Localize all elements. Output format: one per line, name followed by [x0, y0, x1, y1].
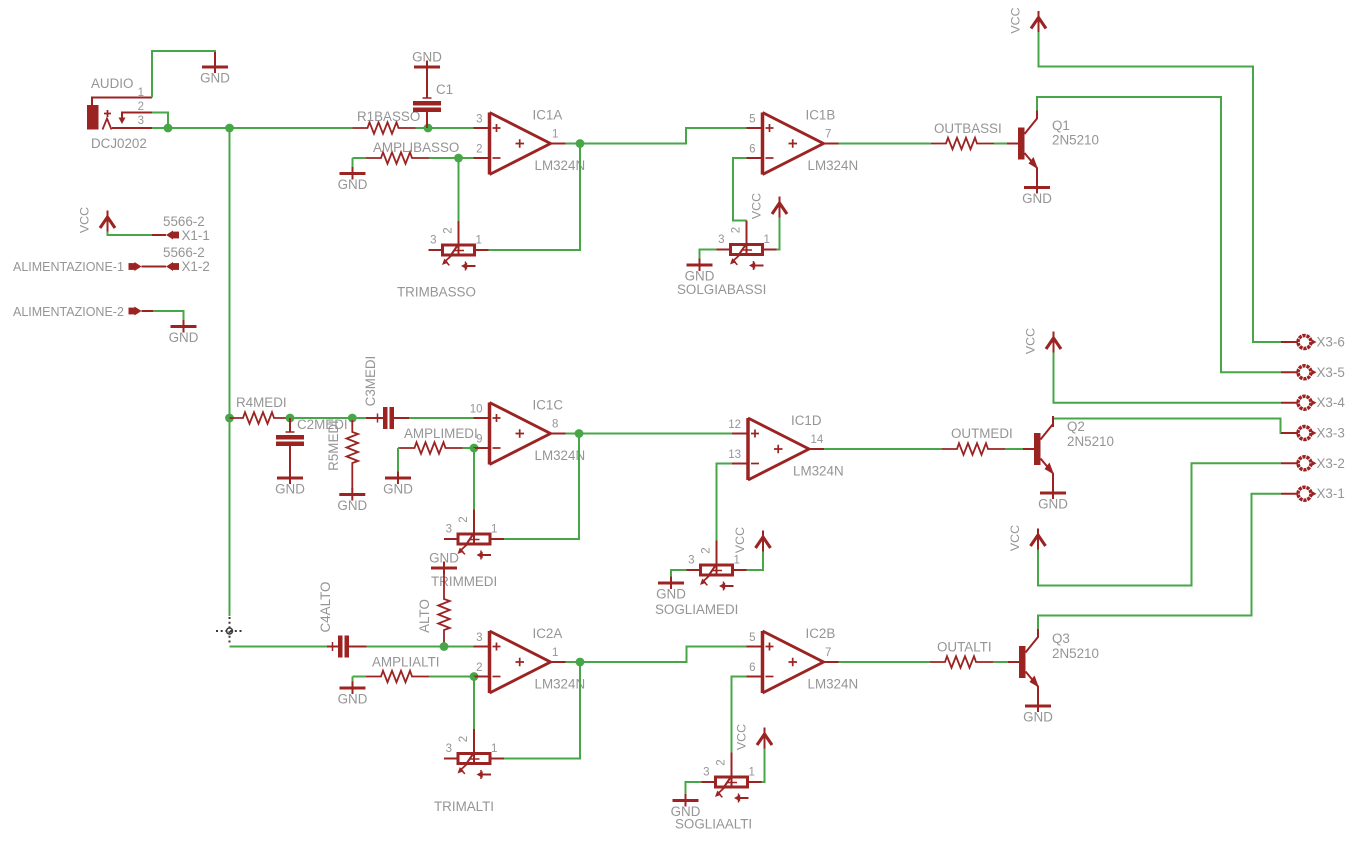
svg-text:Q2: Q2: [1067, 419, 1085, 434]
wire IC1A output: [566, 128, 748, 144]
ground Q1: [1022, 181, 1052, 206]
svg-text:C3MEDI: C3MEDI: [363, 356, 378, 407]
ground ALIMENTAZIONE-2: [169, 320, 199, 345]
svg-text:VCC: VCC: [1008, 525, 1022, 551]
wire IC1D output to OUTMEDI: [824, 448, 942, 450]
trimmer TRIMMEDI: [444, 531, 504, 560]
node marker dotted cross at bus bottom: [216, 617, 243, 645]
wire AMPLIMEDI GND drop: [398, 447, 400, 449]
svg-text:1: 1: [491, 524, 497, 536]
op-amp IC1D: [732, 418, 824, 480]
labels IC1C pins: [470, 398, 585, 464]
vcc symbol left: [78, 207, 116, 233]
svg-text:R4MEDI: R4MEDI: [236, 395, 287, 410]
wire TRIMMEDI wiper: [473, 448, 475, 510]
wire Q1 emitter: [1036, 182, 1038, 184]
svg-text:GND: GND: [169, 330, 199, 345]
svg-text:VCC: VCC: [1009, 7, 1023, 33]
op-amp IC1C: [474, 403, 566, 465]
pad X3-2: [1281, 456, 1345, 471]
connector pad ALIMENTAZIONE-1: [129, 262, 142, 271]
resistor OUTMEDI: [942, 443, 1005, 455]
wire SOGLIAALTI pin1 to VCC: [762, 749, 765, 783]
vcc SOGLIAMEDI: [733, 527, 771, 553]
op-amp IC2B: [747, 631, 839, 693]
ground near AUDIO: [200, 61, 230, 86]
resistor R5MEDI: [347, 420, 359, 490]
svg-text:GND: GND: [200, 71, 230, 86]
svg-text:X3-3: X3-3: [1317, 426, 1345, 441]
svg-text:3: 3: [688, 555, 694, 567]
wire VCC to X3-6: [1039, 32, 1282, 342]
labels TRIMMEDI pins: [446, 516, 498, 535]
trimmer SOGLIAALTI: [702, 774, 762, 803]
svg-text:VCC: VCC: [735, 724, 749, 750]
svg-text:1: 1: [734, 555, 740, 567]
wire Q1 collector to X3-5: [1037, 97, 1281, 372]
svg-text:GND: GND: [383, 482, 413, 497]
svg-text:3: 3: [446, 524, 452, 536]
svg-text:C4ALTO: C4ALTO: [318, 582, 333, 633]
svg-text:GND: GND: [338, 177, 368, 192]
svg-text:LM324N: LM324N: [793, 464, 844, 479]
labels IC2B pins: [749, 626, 858, 692]
svg-text:8: 8: [552, 419, 558, 431]
svg-text:GND: GND: [412, 50, 442, 65]
wire R1BASSO to IC1A pin3: [416, 127, 474, 129]
junction bus/R4MEDI: [225, 414, 234, 423]
svg-text:R5MEDI: R5MEDI: [326, 420, 341, 471]
vcc SOGLIAALTI: [735, 724, 773, 750]
junction C3MEDI/R5MEDI: [348, 414, 357, 423]
resistor OUTALTI: [930, 656, 993, 668]
ground SOLGIABASSI: [685, 259, 715, 284]
op-amp IC1B: [747, 113, 839, 175]
capacitor C2MEDI: [276, 418, 304, 472]
op-amp IC1A: [474, 113, 566, 175]
svg-text:IC1B: IC1B: [806, 108, 836, 123]
svg-text:1: 1: [491, 743, 497, 755]
svg-text:2: 2: [476, 662, 482, 674]
svg-text:GND: GND: [429, 551, 459, 566]
labels IC2A pins: [476, 626, 585, 692]
svg-text:3: 3: [430, 235, 436, 247]
svg-text:SOLGIABASSI: SOLGIABASSI: [677, 282, 766, 297]
labels IC1B pins: [749, 108, 858, 174]
svg-text:1: 1: [552, 647, 558, 659]
wire ALIMENTAZIONE-1 to X1-2: [142, 266, 167, 268]
wire pin X1-1: [152, 234, 166, 236]
junction IC2A output: [576, 658, 585, 667]
svg-text:OUTALTI: OUTALTI: [937, 640, 992, 655]
svg-text:6: 6: [749, 144, 755, 156]
svg-text:2: 2: [476, 144, 482, 156]
svg-text:3: 3: [446, 743, 452, 755]
ground SOGLIAMEDI: [656, 577, 686, 602]
pad X3-4: [1281, 395, 1345, 410]
labels IC1D pins: [728, 413, 843, 479]
labels SOGLIAMEDI pins: [688, 547, 740, 566]
wire ALIMENTAZIONE-2 to GND: [153, 311, 184, 321]
ground R5MEDI: [337, 488, 367, 513]
wire VCC to X3-4: [1054, 353, 1282, 403]
svg-text:5566-2: 5566-2: [163, 245, 205, 260]
wire SOGLIAMEDI pin1 to VCC: [747, 552, 764, 571]
svg-text:IC1A: IC1A: [533, 108, 563, 123]
svg-text:1: 1: [138, 87, 144, 99]
ground SOGLIAALTI: [671, 794, 701, 819]
junction ALTO/C4ALTO: [440, 642, 449, 651]
svg-text:5: 5: [749, 114, 755, 126]
svg-text:5566-2: 5566-2: [163, 214, 205, 229]
trimmer SOLGIABASSI: [717, 242, 777, 271]
wire AMPLIMEDI to IC1C pin9: [463, 447, 474, 449]
wire C4ALTO to IC2A pin3: [367, 646, 474, 648]
junction IC1C output: [575, 429, 584, 438]
transistor Q1: [1007, 111, 1038, 182]
svg-text:12: 12: [728, 419, 741, 431]
wire IC2B output to OUTALTI: [839, 661, 931, 663]
svg-text:3: 3: [138, 115, 144, 127]
wire R4MEDI to C3MEDI: [290, 417, 366, 419]
svg-text:SOGLIAMEDI: SOGLIAMEDI: [655, 602, 738, 617]
ground above C1: [412, 50, 442, 74]
capacitor C1: [413, 64, 441, 128]
svg-text:VCC: VCC: [733, 527, 747, 553]
vcc bottom right: [1008, 525, 1046, 551]
wire VCC to X1-1: [108, 232, 153, 236]
capacitor C3MEDI: [366, 407, 409, 429]
svg-text:1: 1: [552, 129, 558, 141]
pad X3-1: [1281, 486, 1345, 501]
svg-text:OUTMEDI: OUTMEDI: [951, 426, 1013, 441]
resistor R4MEDI: [230, 412, 291, 424]
junction at J1 pin3: [164, 124, 173, 133]
svg-text:7: 7: [825, 129, 831, 141]
junction AMPLIMEDI node: [470, 444, 479, 453]
svg-text:AUDIO: AUDIO: [91, 76, 133, 91]
junction IC1A output: [576, 139, 585, 148]
svg-text:X3-5: X3-5: [1317, 365, 1345, 380]
svg-text:GND: GND: [338, 692, 368, 707]
wire SOGLIAALTI pin3 to GND: [686, 782, 702, 794]
pad X3-3: [1281, 426, 1345, 441]
svg-text:3: 3: [476, 114, 482, 126]
labels IC1A pins: [476, 108, 585, 174]
ground AMPLIMEDI: [383, 472, 413, 497]
svg-text:2: 2: [443, 227, 455, 233]
wire pin ALIMENTAZIONE-2: [142, 310, 154, 312]
svg-text:SOGLIAALTI: SOGLIAALTI: [675, 817, 752, 832]
transistor Q2: [1023, 416, 1054, 487]
ground AMPLIALTI: [338, 682, 368, 707]
svg-text:9: 9: [476, 434, 482, 446]
ground Q3: [1023, 700, 1053, 725]
connector pad ALIMENTAZIONE-2: [129, 307, 142, 316]
svg-text:VCC: VCC: [1024, 328, 1038, 354]
svg-text:2: 2: [138, 101, 144, 113]
vcc mid right: [1024, 328, 1062, 354]
connector pad X1-2: [166, 262, 179, 271]
svg-text:2N5210: 2N5210: [1052, 646, 1099, 661]
wire Q3 emitter GND: [1037, 700, 1039, 701]
wire IC2B pin6 to SOGLIAALTI: [732, 677, 747, 753]
svg-text:2: 2: [458, 516, 470, 522]
resistor R1BASSO: [353, 122, 416, 134]
svg-text:IC1C: IC1C: [533, 398, 564, 413]
svg-text:1: 1: [476, 235, 482, 247]
ground above ALTO: [429, 551, 459, 575]
wire feedback to TRIMBASSO: [489, 144, 581, 251]
svg-text:ALTO: ALTO: [417, 599, 432, 633]
vcc SOLGIABASSI: [750, 193, 788, 219]
svg-text:3: 3: [718, 234, 724, 246]
svg-text:OUTBASSI: OUTBASSI: [934, 121, 1002, 136]
wire bus to C4ALTO: [230, 646, 328, 648]
svg-text:LM324N: LM324N: [535, 448, 586, 463]
wire C3MEDI to IC1C pin10: [409, 417, 474, 419]
svg-text:C1: C1: [436, 82, 453, 97]
svg-text:GND: GND: [337, 498, 367, 513]
wire IC1B pin6 to SOLGIABASSI: [733, 158, 747, 221]
resistor AMPLIBASSO: [366, 152, 429, 164]
svg-text:2: 2: [716, 759, 728, 765]
svg-text:ALIMENTAZIONE-1: ALIMENTAZIONE-1: [13, 260, 124, 274]
svg-text:GND: GND: [1038, 497, 1068, 512]
svg-text:Q3: Q3: [1052, 631, 1070, 646]
op-amp IC2A: [474, 631, 566, 693]
svg-text:R1BASSO: R1BASSO: [357, 109, 420, 124]
svg-text:AMPLIMEDI: AMPLIMEDI: [404, 426, 478, 441]
svg-text:13: 13: [728, 449, 741, 461]
wire feedback to TRIMMEDI: [504, 434, 579, 540]
wire Q2 emitter: [1052, 487, 1054, 489]
junction R1BASSO/C1: [424, 124, 433, 133]
wire GND to AMPLIBASSO: [353, 157, 367, 159]
junction main bus top: [225, 124, 234, 133]
svg-text:IC2A: IC2A: [533, 626, 563, 641]
svg-text:3: 3: [476, 632, 482, 644]
svg-text:LM324N: LM324N: [808, 158, 859, 173]
svg-text:6: 6: [749, 662, 755, 674]
pad X3-5: [1281, 365, 1345, 380]
wire SOLGIABASSI pin3 to GND: [700, 250, 717, 259]
wire OUTALTI to Q3 base: [993, 661, 1008, 663]
svg-text:2: 2: [458, 736, 470, 742]
transistor Q3: [1008, 629, 1039, 700]
svg-text:GND: GND: [656, 587, 686, 602]
vcc top right: [1009, 7, 1047, 33]
svg-text:GND: GND: [1023, 710, 1053, 725]
svg-text:3: 3: [703, 767, 709, 779]
labels TRIMBASSO pins: [430, 227, 482, 246]
junction AMPLIALTI node: [470, 672, 479, 681]
svg-text:GND: GND: [1022, 191, 1052, 206]
ground AMPLIBASSO: [338, 167, 368, 192]
labels SOLGIABASSI pins: [718, 227, 770, 246]
svg-text:10: 10: [470, 404, 483, 416]
svg-text:X1-2: X1-2: [182, 259, 210, 274]
wire TRIMBASSO wiper: [458, 158, 460, 221]
wire IC1B output to OUTBASSI: [839, 143, 932, 145]
connector pad X1-1: [166, 231, 179, 240]
svg-text:AMPLIALTI: AMPLIALTI: [372, 655, 439, 670]
wire J1 pin2 to node: [152, 113, 168, 129]
wire TRIMALTI wiper: [473, 677, 475, 730]
wire main input net: [152, 127, 353, 129]
wire IC1C output to IC1D pin12: [566, 433, 733, 435]
wire Q3 collector to X3-1: [1038, 494, 1281, 629]
svg-text:2N5210: 2N5210: [1067, 434, 1114, 449]
wire feedback to TRIMALTI: [504, 662, 580, 759]
junction AMPLIBASSO node: [454, 154, 463, 163]
resistor AMPLIMEDI: [400, 442, 463, 454]
wire Q2 collector to X3-3: [1053, 416, 1281, 433]
trimmer SOGLIAMEDI: [687, 562, 747, 591]
svg-text:5: 5: [749, 632, 755, 644]
svg-text:TRIMMEDI: TRIMMEDI: [431, 574, 497, 589]
labels TRIMALTI pins: [446, 736, 498, 755]
svg-text:2N5210: 2N5210: [1052, 133, 1099, 148]
svg-text:VCC: VCC: [78, 207, 92, 233]
pad X3-6: [1281, 335, 1345, 350]
wire VCC to X3-2: [1038, 463, 1281, 585]
svg-text:LM324N: LM324N: [808, 677, 859, 692]
svg-text:Q1: Q1: [1052, 118, 1070, 133]
junction R4MEDI/C2MEDI: [286, 414, 295, 423]
svg-text:X1-1: X1-1: [182, 228, 210, 243]
svg-text:DCJ0202: DCJ0202: [91, 136, 147, 151]
resistor OUTBASSI: [931, 138, 994, 150]
svg-text:14: 14: [811, 434, 824, 446]
svg-text:X3-6: X3-6: [1317, 335, 1345, 350]
connector J1 AUDIO (DCJ0202) jack symbol: [87, 98, 152, 130]
svg-text:TRIMALTI: TRIMALTI: [434, 799, 494, 814]
svg-text:X3-4: X3-4: [1317, 395, 1346, 410]
ground C2MEDI: [275, 472, 305, 497]
svg-text:X3-2: X3-2: [1317, 456, 1345, 471]
labels SOGLIAALTI pins: [703, 759, 755, 778]
wire SOGLIAMEDI pin3 to GND: [671, 570, 687, 577]
wire OUTMEDI to Q2 base: [1005, 448, 1023, 450]
trimmer TRIMBASSO: [429, 242, 489, 271]
svg-text:X3-1: X3-1: [1317, 486, 1345, 501]
wire J1 pin1 to GND: [152, 51, 215, 98]
wire GND to AMPLIALTI: [353, 676, 367, 678]
wire AMPLIBASSO to IC1A pin2: [429, 157, 474, 159]
svg-text:7: 7: [825, 647, 831, 659]
wire IC2A output: [566, 647, 748, 663]
svg-text:1: 1: [749, 767, 755, 779]
ground Q2: [1038, 487, 1068, 512]
svg-text:AMPLIBASSO: AMPLIBASSO: [373, 140, 459, 155]
svg-text:GND: GND: [275, 482, 305, 497]
wire IC1D pin13 to SOGLIAMEDI: [717, 464, 733, 541]
svg-text:LM324N: LM324N: [535, 158, 586, 173]
svg-text:ALIMENTAZIONE-2: ALIMENTAZIONE-2: [13, 305, 124, 319]
wire main vertical bus: [229, 128, 231, 616]
svg-text:LM324N: LM324N: [535, 677, 586, 692]
resistor AMPLIALTI: [366, 671, 429, 683]
svg-text:IC1D: IC1D: [791, 413, 822, 428]
wire OUTBASSI to Q1 base: [994, 143, 1007, 145]
resistor ALTO (vertical): [438, 574, 450, 648]
wire SOLGIABASSI pin1 to VCC: [777, 218, 780, 250]
svg-text:2: 2: [701, 547, 713, 553]
svg-text:1: 1: [764, 234, 770, 246]
capacitor C4ALTO: [327, 636, 367, 658]
wire AMPLIALTI to IC2A pin2: [429, 676, 474, 678]
svg-text:2: 2: [731, 227, 743, 233]
svg-text:IC2B: IC2B: [806, 626, 836, 641]
svg-text:VCC: VCC: [750, 193, 764, 219]
trimmer TRIMALTI: [444, 751, 504, 780]
svg-text:TRIMBASSO: TRIMBASSO: [397, 285, 476, 300]
